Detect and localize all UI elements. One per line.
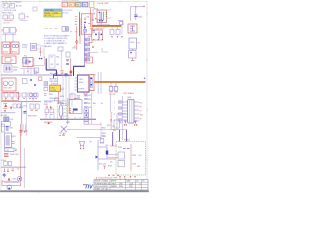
- svg-text:D822 Z823: D822 Z823: [49, 81, 57, 83]
- blue box pair: [4, 117, 14, 121]
- net label legend row: [62, 2, 88, 7]
- net names SP SG: [70, 32, 78, 34]
- blue rows above U802: [49, 79, 57, 84]
- svg-text:R841: R841: [77, 96, 81, 98]
- title block table: [94, 180, 148, 191]
- red warning text: [74, 46, 76, 48]
- feedback parts: [107, 120, 122, 128]
- svg-text:R953 C954: R953 C954: [10, 154, 18, 156]
- left lower narrow box: [2, 124, 14, 132]
- border tick marks: [39, 1, 149, 194]
- transformer T901: [114, 100, 144, 126]
- transformer T901 label: [123, 92, 134, 95]
- red arrows under bus: [4, 169, 20, 172]
- right rail capacitor C930: [130, 6, 145, 21]
- primary ground bus: [1, 74, 72, 76]
- svg-text:R84: R84: [93, 103, 96, 105]
- wire to LED: [4, 182, 20, 184]
- small filter under bracket: [100, 139, 104, 143]
- regulator U930: [129, 38, 140, 49]
- svg-text:C9 R9: C9 R9: [12, 179, 17, 181]
- svg-text:D98: D98: [88, 107, 91, 109]
- svg-text:C823: C823: [60, 89, 64, 91]
- svg-text:R871 R872: R871 R872: [28, 116, 37, 118]
- svg-text:L901 CY1: L901 CY1: [3, 23, 10, 25]
- LED indicator circle: [17, 177, 21, 181]
- svg-text:D95: D95: [88, 95, 91, 97]
- svg-text:C951: C951: [9, 128, 13, 130]
- svg-text:R3: R3: [85, 49, 87, 51]
- svg-text:PS-ON 5VSB: PS-ON 5VSB: [98, 3, 110, 5]
- red sense line: [70, 26, 79, 74]
- svg-text:AC IN: AC IN: [16, 5, 22, 8]
- caps on risers: [23, 104, 39, 118]
- svg-text:PC901: PC901: [124, 140, 130, 142]
- RC snubber cluster SB: [110, 27, 123, 38]
- svg-text:D96: D96: [88, 99, 91, 101]
- svg-text:P12: P12: [140, 107, 143, 109]
- svg-text:R824: R824: [49, 94, 53, 96]
- standby supply label box: [89, 1, 94, 7]
- svg-text:C915: C915: [72, 48, 76, 50]
- primary wires near standby: [93, 9, 111, 27]
- line filter L901: [3, 15, 14, 25]
- cap pair C953: [23, 124, 26, 133]
- svg-text:1:1: 1:1: [139, 183, 141, 185]
- red resistor R952: [20, 131, 23, 133]
- PFC controller IC U801: [75, 75, 93, 92]
- svg-text:24: 24: [70, 5, 72, 7]
- cap C916: [66, 60, 69, 65]
- net label VCC: [88, 36, 92, 38]
- blue ref text: [12, 179, 17, 181]
- svg-text:C81: C81: [87, 17, 90, 19]
- relay RL901: [31, 44, 41, 51]
- net label CN text: [22, 45, 28, 50]
- svg-text:R1: R1: [85, 39, 87, 41]
- svg-text:Q951: Q951: [12, 136, 16, 138]
- svg-text:R1: R1: [143, 181, 145, 183]
- svg-text:A: 12-08-21 ECN-0517 REV: A: 12-08-21 ECN-0517 REV: [96, 177, 118, 180]
- svg-text:L951: L951: [5, 150, 9, 152]
- feedback divider under IC: [70, 94, 89, 101]
- red return line: [2, 180, 20, 186]
- mid bus line: [1, 97, 41, 102]
- red marks under labels: [46, 106, 52, 124]
- net label SB: [19, 107, 24, 109]
- svg-text:R922: R922: [102, 133, 106, 135]
- svg-text:465-0101-M1901G: 465-0101-M1901G: [95, 186, 109, 188]
- svg-text:R2: R2: [85, 44, 87, 46]
- bracket net over green box: [113, 130, 127, 146]
- red dash marks center: [61, 70, 64, 73]
- feedback network: [96, 140, 117, 170]
- svg-text:U930: U930: [130, 42, 134, 44]
- svg-text:SG1: SG1: [50, 73, 53, 75]
- svg-text:TIV: TIV: [85, 185, 94, 191]
- filter cap C860: [65, 73, 68, 76]
- red junction mark2: [25, 130, 28, 133]
- svg-text:90-264: 90-264: [45, 12, 50, 14]
- net label PC-2: [94, 9, 98, 11]
- secondary rectifier column: [84, 92, 91, 124]
- fuse and filter block: [2, 28, 17, 43]
- current sense shunt: [38, 77, 42, 80]
- diode cross D955: [2, 173, 6, 177]
- red wedge regulator: [2, 178, 19, 182]
- svg-text:5V: 5V: [140, 111, 142, 113]
- orange bus B+: [94, 77, 145, 83]
- notes text block: [44, 34, 70, 48]
- resistor chain column: [84, 24, 90, 66]
- svg-text:U901: U901: [132, 164, 136, 166]
- svg-text:BD901: BD901: [3, 52, 8, 54]
- svg-text:R925: R925: [108, 166, 112, 168]
- IC U802 standby controller: [50, 85, 61, 92]
- svg-text:C81 C82: C81 C82: [109, 94, 115, 96]
- svg-text:VOLT TBL: VOLT TBL: [45, 10, 53, 12]
- svg-text:C923: C923: [102, 136, 106, 138]
- svg-text:C825 D826: C825 D826: [49, 98, 57, 100]
- cap C47: [35, 58, 43, 74]
- long feedback line: [67, 128, 127, 130]
- short relay box: [2, 122, 11, 126]
- svg-text:T901 TRANS: T901 TRANS: [123, 92, 134, 95]
- inductor box L951: [5, 148, 17, 152]
- page bottom shadow bar: [0, 191, 149, 193]
- svg-text:4V: 4V: [101, 103, 103, 105]
- transistor Q902: [80, 142, 85, 150]
- orange bus 5VSB: [92, 21, 123, 27]
- ground bus bottom-left: [1, 166, 26, 168]
- transformer T801 winding: [57, 102, 66, 120]
- green dashed feedback box PC901: [116, 140, 146, 175]
- red sense rail left: [19, 124, 21, 186]
- svg-text:R4: R4: [85, 54, 87, 56]
- bridge rectifier BD902: [11, 42, 19, 54]
- revision note red text: [96, 175, 119, 179]
- svg-text:U802: U802: [51, 87, 55, 89]
- svg-text:GR8876: GR8876: [79, 89, 85, 91]
- svg-text:P24: P24: [140, 103, 143, 105]
- svg-text:R933: R933: [118, 147, 122, 149]
- small caps right of PC1: [23, 58, 36, 86]
- capacitor C932: [129, 49, 137, 61]
- svg-text:C852: C852: [44, 104, 48, 106]
- svg-text:PWM: PWM: [79, 82, 84, 84]
- svg-text:IC PROT: IC PROT: [51, 84, 57, 86]
- svg-text:R833: R833: [60, 96, 64, 98]
- IC caption: [90, 75, 96, 77]
- speaker circle: [7, 185, 11, 189]
- optocoupler PC1: [23, 56, 33, 67]
- primary small parts row: [4, 93, 38, 99]
- snubber cluster right of dashed: [69, 98, 82, 114]
- svg-text:D83: D83: [77, 98, 80, 100]
- svg-text:12-08: 12-08: [129, 183, 133, 185]
- red rail line: [80, 8, 90, 44]
- net label AC1: [40, 51, 43, 54]
- svg-text:47-63: 47-63: [54, 12, 58, 14]
- svg-text:R821 C821: R821 C821: [49, 79, 57, 81]
- red annotation under bus: [90, 29, 104, 31]
- svg-text:U801: U801: [79, 79, 83, 81]
- switch transistor Q930: [128, 24, 137, 33]
- gray microtext row: [44, 28, 58, 30]
- svg-text:D861: D861: [66, 122, 70, 124]
- net label opto drive: [102, 133, 106, 138]
- svg-text:PC1: PC1: [24, 56, 27, 58]
- marks below green box: [119, 178, 126, 180]
- transistor pair Q871: [30, 93, 37, 99]
- svg-text:C971: C971: [23, 106, 27, 108]
- svg-text:Q92: Q92: [105, 145, 108, 147]
- mosfet block Q801: [89, 72, 101, 94]
- lower bus line: [40, 112, 96, 120]
- red resistors under L951: [4, 154, 18, 157]
- aux winding box: [113, 120, 120, 132]
- red box around top of chain: [86, 57, 93, 63]
- svg-text:R62: R62: [56, 64, 59, 66]
- caps under B+ bus: [109, 83, 118, 96]
- svg-text:LD7750: LD7750: [51, 90, 57, 92]
- wire risers under IC: [62, 72, 72, 106]
- svg-text:CX1: CX1: [26, 17, 30, 19]
- audio amp IC U951: [5, 133, 16, 147]
- feedback sense lines: [76, 122, 108, 147]
- svg-text:R931: R931: [132, 155, 136, 157]
- svg-text:12: 12: [63, 5, 65, 7]
- standby transformer T903: [91, 10, 107, 23]
- pink trace to PC1: [32, 56, 44, 65]
- svg-text:2P: 2P: [90, 142, 92, 144]
- blue sub labels: [60, 89, 64, 105]
- svg-text:R858 C859: R858 C859: [44, 122, 52, 124]
- feedback labels: [118, 147, 136, 166]
- svg-text:L-OUT: L-OUT: [22, 47, 28, 49]
- svg-text:C92: C92: [112, 126, 115, 128]
- svg-text:FB: FB: [140, 119, 142, 121]
- svg-text:R61: R61: [56, 56, 59, 58]
- thick HV net: [46, 59, 85, 77]
- wire risers center: [40, 46, 61, 79]
- capacitor bank CB901: [2, 78, 16, 91]
- svg-text:CHECK: CHECK: [111, 183, 116, 185]
- svg-text:C930: C930: [138, 16, 142, 18]
- mid-left pocket parts: [13, 104, 54, 115]
- thermistor block: [2, 56, 16, 64]
- snubber caps mid-left: [20, 67, 39, 76]
- svg-text:FB801: FB801: [57, 102, 62, 104]
- svg-text:NT: NT: [12, 60, 14, 62]
- left risers: [21, 92, 26, 136]
- legend microtext: [62, 1, 79, 3]
- svg-text:BD902: BD902: [12, 52, 17, 54]
- svg-text:C61: C61: [50, 56, 53, 58]
- voltage table: [44, 9, 62, 17]
- page border frame: [1, 1, 147, 190]
- svg-text:P12V P24V 5VSB PSON: P12V P24V 5VSB PSON: [62, 1, 79, 3]
- shunt regulator U901: [108, 144, 136, 178]
- red safety box on parts row: [2, 92, 19, 100]
- red protection arrows: [3, 104, 12, 112]
- top-left annotation text: [2, 0, 23, 14]
- under U802 parts: [44, 72, 66, 104]
- svg-text:EE35: EE35: [128, 97, 132, 99]
- net label PS-ON: [98, 3, 110, 5]
- svg-text:MODEL PSU SCHEMATIC: MODEL PSU SCHEMATIC: [2, 0, 23, 3]
- sense wires below SB2: [88, 40, 108, 52]
- connector CN901 top-left: [3, 4, 22, 9]
- svg-text:C908: C908: [13, 70, 17, 72]
- sub bus line: [1, 112, 16, 114]
- svg-text:FB: FB: [93, 14, 95, 16]
- purple rail left: [23, 148, 25, 188]
- sense resistor block: [44, 82, 48, 91]
- svg-text:C609 R610: C609 R610: [44, 46, 52, 48]
- red dash column: [75, 17, 77, 25]
- output list text: [61, 10, 73, 14]
- red dashed isolation line: [68, 98, 71, 124]
- green net label AC-DET: [1, 114, 9, 117]
- transformer T901 sub label: [128, 97, 132, 99]
- M symbol component: [62, 27, 69, 32]
- wire label pairs: [50, 56, 60, 75]
- feedback red labels: [137, 155, 142, 168]
- center annotation text: [44, 102, 53, 107]
- crystal X901: [59, 126, 67, 136]
- svg-text:D971: D971: [10, 119, 14, 121]
- svg-text:DC OUT 24V/12V: DC OUT 24V/12V: [61, 10, 73, 12]
- filter component cluster top-left: [19, 12, 29, 21]
- svg-text:SP: SP: [70, 32, 72, 34]
- caps row y162: [4, 162, 12, 166]
- svg-text:D97: D97: [88, 103, 91, 105]
- svg-text:FB901 FB902: FB901 FB902: [2, 13, 12, 15]
- snubber box: [80, 12, 97, 36]
- svg-text:D912: D912: [88, 36, 92, 38]
- small box above winding: [54, 98, 58, 101]
- svg-text:REF: REF: [137, 166, 140, 168]
- red label above U802: [51, 84, 57, 86]
- svg-text:C905 C906: C905 C906: [3, 88, 12, 90]
- spark gap SG1: [33, 7, 37, 11]
- misc primary components: [58, 47, 76, 57]
- svg-text:C62: C62: [50, 64, 53, 66]
- svg-text:R93: R93: [113, 130, 116, 132]
- secondary snubber row: [44, 103, 103, 124]
- svg-text:SG_3.3V: SG_3.3V: [99, 164, 107, 166]
- bridge rectifier BD901: [2, 42, 10, 54]
- snubber network box SB2: [92, 30, 103, 40]
- secondary risers: [111, 94, 126, 140]
- company logo TIV: [83, 184, 93, 191]
- svg-text:R921: R921: [107, 125, 111, 127]
- green net label 12V: [1, 159, 7, 162]
- varistor cluster: [4, 65, 18, 72]
